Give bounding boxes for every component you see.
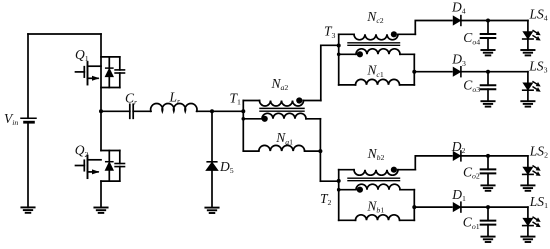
svg-text:LS4: LS4: [529, 6, 548, 22]
svg-text:Lr: Lr: [169, 90, 182, 106]
svg-text:T2: T2: [320, 191, 332, 207]
svg-text:D3: D3: [451, 52, 466, 68]
svg-text:Co2: Co2: [463, 164, 480, 180]
svg-text:Co1: Co1: [463, 215, 480, 231]
svg-text:D2: D2: [451, 139, 466, 155]
svg-text:T3: T3: [324, 24, 336, 40]
svg-text:Co3: Co3: [463, 78, 480, 94]
svg-text:Vin: Vin: [4, 111, 18, 127]
svg-text:D1: D1: [451, 187, 466, 203]
svg-text:LS1: LS1: [529, 194, 548, 210]
svg-text:T1: T1: [230, 90, 242, 106]
svg-text:Nc1: Nc1: [366, 63, 383, 79]
svg-text:Q1: Q1: [75, 47, 89, 63]
svg-text:Nb1: Nb1: [366, 198, 384, 214]
svg-text:Nc2: Nc2: [366, 9, 383, 25]
svg-text:Cr: Cr: [125, 90, 138, 106]
svg-text:LS3: LS3: [528, 58, 547, 74]
svg-text:LS2: LS2: [529, 143, 548, 159]
svg-text:Nb2: Nb2: [367, 146, 385, 162]
svg-text:D5: D5: [219, 159, 234, 175]
svg-text:Na2: Na2: [271, 76, 289, 92]
svg-text:D4: D4: [451, 0, 466, 16]
svg-text:Q2: Q2: [75, 143, 89, 159]
svg-text:Na1: Na1: [275, 130, 293, 146]
svg-text:Co4: Co4: [463, 30, 480, 46]
